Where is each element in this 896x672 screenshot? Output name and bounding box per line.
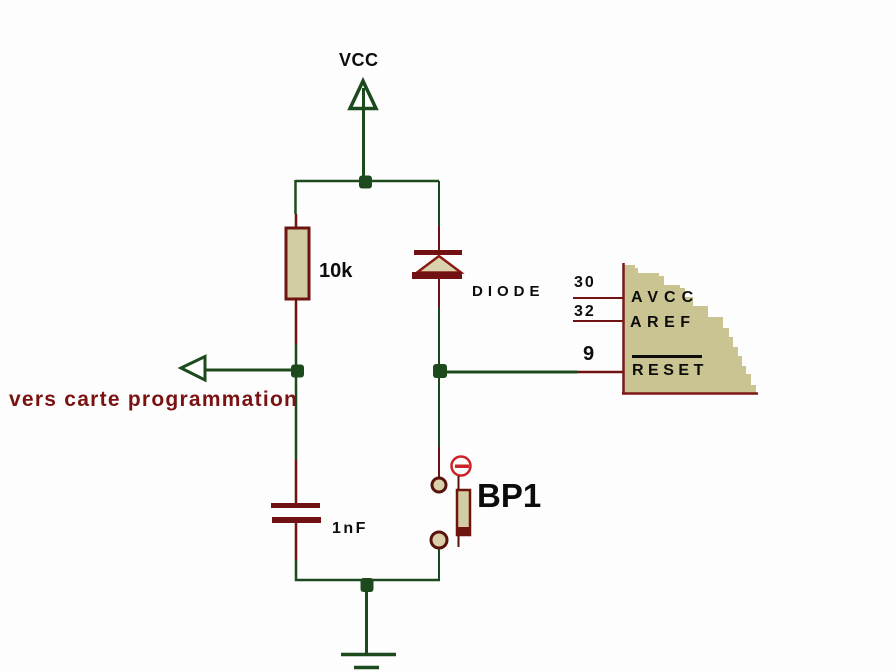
pushbutton BP1 terminal bottom [431,532,447,548]
wire left vertical mid [295,344,298,459]
pin 9 wire [577,371,623,374]
node top junction [359,176,372,189]
svg-text:DIODE: DIODE [472,283,545,300]
IC U1 bottom edge [622,392,758,395]
wire arrow horizontal [205,369,296,372]
wire VCC stub [362,88,365,182]
wire button bottom [438,549,440,581]
svg-text:10k: 10k [319,260,353,282]
svg-text:30: 30 [574,274,596,291]
pin resistor top [295,214,298,229]
pushbutton BP1 terminal top [432,478,446,492]
pin capacitor bottom [295,523,298,560]
wire top horizontal [296,180,440,183]
wire reset horizontal [440,371,577,374]
pin capacitor top [295,459,298,504]
svg-text:BP1: BP1 [477,477,541,514]
node bottom junction [361,578,374,592]
pin diode top [438,226,440,251]
arrow to programming board [181,357,205,381]
pin resistor bottom [295,299,298,344]
diode D1 anode bar [412,272,462,279]
label RESET overline [632,355,702,358]
svg-text:VCC: VCC [339,50,379,70]
pin button top [438,447,440,477]
node left junction [291,365,304,378]
wire right vertical upper [438,181,440,226]
wire left vertical upper [294,180,297,214]
capacitor C1 plate top [271,503,320,508]
pushbutton BP1 bar base [457,527,471,535]
wire ground stub [365,582,368,653]
pushbutton BP1 actuator dash [455,465,469,469]
ground bar 2 [354,666,379,670]
svg-text:9: 9 [583,343,594,365]
node right junction [433,364,447,378]
pushbutton BP1 actuator circle [452,457,471,476]
diode D1 cathode bar [414,250,462,255]
svg-text:RESET: RESET [632,362,708,379]
wire bottom left corner [296,560,440,580]
ground bar 1 [341,653,396,657]
power symbol VCC [350,81,376,109]
wire right vertical mid [438,308,440,447]
svg-text:AREF: AREF [630,314,696,331]
IC U1 body [624,265,756,393]
pushbutton BP1 stem [458,476,460,547]
pin 32 wire [573,320,623,322]
capacitor C1 plate bottom [272,517,321,523]
pushbutton BP1 bar [457,490,470,535]
pin 30 wire [573,297,623,299]
svg-text:vers carte programmation: vers carte programmation [9,388,298,411]
resistor R1 10k [286,228,309,299]
svg-text:32: 32 [574,303,596,320]
diode D1 triangle [417,256,461,273]
IC U1 left edge [622,263,625,394]
svg-text:AVCC: AVCC [631,289,699,306]
svg-text:1nF: 1nF [332,520,368,537]
pin diode bottom [438,279,440,308]
